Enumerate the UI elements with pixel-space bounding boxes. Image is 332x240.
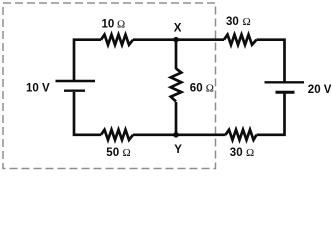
svg-text:Ω: Ω <box>246 147 254 159</box>
svg-text:Y: Y <box>174 144 182 156</box>
svg-text:30: 30 <box>230 147 243 159</box>
svg-text:10 V: 10 V <box>26 83 50 95</box>
svg-text:10: 10 <box>102 19 115 31</box>
svg-text:50: 50 <box>106 147 119 159</box>
svg-text:Ω: Ω <box>243 16 251 28</box>
svg-text:Ω: Ω <box>117 19 125 31</box>
svg-text:60: 60 <box>190 83 203 95</box>
svg-text:X: X <box>174 22 182 34</box>
svg-text:30: 30 <box>226 16 239 28</box>
svg-text:Ω: Ω <box>206 83 214 95</box>
svg-text:Ω: Ω <box>123 147 131 159</box>
svg-text:20 V: 20 V <box>308 84 332 96</box>
